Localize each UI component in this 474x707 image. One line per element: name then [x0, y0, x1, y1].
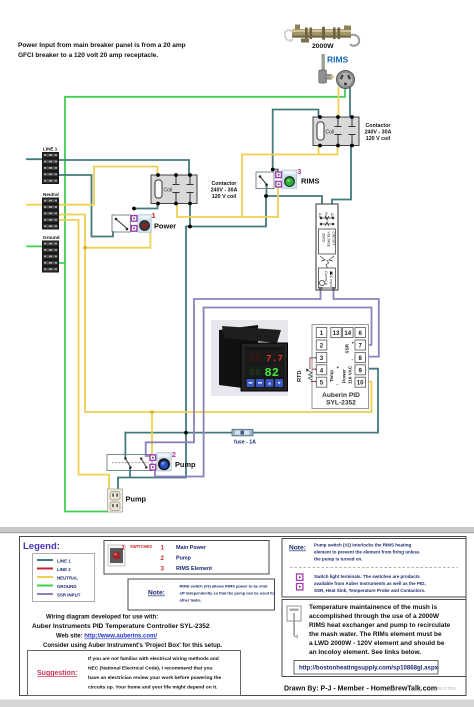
- svg-text:RIMS: RIMS: [301, 177, 320, 186]
- svg-text:9: 9: [359, 367, 363, 374]
- svg-text:SWITCHES: SWITCHES: [130, 544, 152, 549]
- terminal S3 lamp B: [276, 181, 282, 187]
- wire neutral to pump receptacle: [58, 220, 109, 489]
- label contactor K1 value: [211, 181, 238, 200]
- svg-text:SSR INPUT: SSR INPUT: [57, 592, 81, 597]
- pump receptacle: [108, 489, 123, 512]
- SSR U1: [316, 204, 338, 290]
- wire pump switch to pump receptacle: [118, 433, 186, 489]
- svg-text:ZERO: ZERO: [322, 233, 326, 243]
- wire RIMS switch to coil K2: [273, 110, 319, 170]
- svg-text:RIMS Element: RIMS Element: [176, 566, 212, 572]
- svg-text:13: 13: [333, 330, 340, 337]
- suggestion box: [28, 651, 241, 696]
- switch S2 pump DPST: [107, 455, 152, 471]
- svg-text:08.22.2011: 08.22.2011: [437, 687, 456, 691]
- svg-text:A2: A2: [330, 213, 334, 217]
- svg-text:88: 88: [249, 368, 261, 379]
- junction neutral lamp tap: [150, 410, 154, 414]
- svg-text:Ground: Ground: [43, 235, 60, 240]
- legend outer box: [20, 537, 467, 696]
- svg-text:circuits up. Your home and you: circuits up. Your home and your life mig…: [88, 685, 218, 691]
- svg-text:RIMS heat exchanger and pump t: RIMS heat exchanger and pump to recircul…: [309, 622, 451, 629]
- svg-text:Main Power: Main Power: [176, 545, 207, 551]
- svg-text:a LWD 2000W - 120V element and: a LWD 2000W - 120V element and should be: [309, 640, 445, 647]
- svg-text:If you are not familiar with e: If you are not familiar with electrical …: [88, 656, 219, 662]
- svg-text:+: +: [337, 365, 340, 370]
- svg-text:Out: Out: [324, 212, 328, 218]
- svg-text:14: 14: [344, 330, 351, 337]
- svg-text:3: 3: [297, 167, 301, 176]
- wire contactor K2 to SSR A2: [332, 146, 351, 205]
- wire fused line bus to PID terminal 9: [125, 369, 378, 433]
- switch S1 main power: [112, 215, 131, 232]
- wire SSR input minus to pump interlock: [146, 289, 321, 456]
- terminal S3 lamp A: [276, 172, 282, 178]
- terminal S1 lamp A: [131, 216, 137, 222]
- contactor K1: [151, 173, 197, 205]
- svg-text:Note:: Note:: [148, 590, 165, 597]
- wire coil return link K2 to K1: [177, 146, 338, 217]
- contactor K2: [313, 115, 359, 147]
- svg-text:RTD: RTD: [297, 371, 303, 383]
- svg-text:the mash water. The RIMs elem: the mash water. The RIMs element must be: [309, 631, 442, 638]
- svg-text:accomplished through the use o: accomplished through the use of a 2000W: [309, 613, 440, 620]
- svg-text:LINE 2: LINE 2: [57, 567, 71, 572]
- svg-text:240V - 30A: 240V - 30A: [211, 188, 238, 194]
- terminal S1 lamp B: [131, 226, 137, 232]
- svg-text:GFCI breaker to a 120 volt 20: GFCI breaker to a 120 volt 20 amp recept…: [18, 52, 158, 59]
- svg-text:SYL-2352: SYL-2352: [326, 400, 356, 407]
- svg-text:off independently so that the: off independently so that the pump can b…: [180, 591, 276, 596]
- svg-text:+: +: [352, 341, 355, 346]
- legend entry NEUTRAL: [37, 575, 78, 580]
- svg-text:NEUTRAL: NEUTRAL: [57, 575, 78, 580]
- wire neutral to PID terminal 10: [58, 215, 372, 413]
- credits text: [32, 615, 222, 650]
- switches box: [104, 541, 269, 575]
- PID terminal box U2: [312, 325, 369, 409]
- svg-text:RIMS: RIMS: [327, 55, 349, 65]
- wire contactor K1 to fused bus: [186, 204, 190, 433]
- svg-text:8: 8: [359, 355, 363, 362]
- wire receptacle line pin to contactor K2: [349, 88, 351, 117]
- legend entry SSR INPUT: [37, 592, 81, 597]
- svg-text:Suggestion:: Suggestion:: [37, 670, 77, 677]
- svg-text:Auberin PID: Auberin PID: [322, 392, 360, 399]
- junction dots: [132, 168, 275, 435]
- svg-text:1: 1: [161, 545, 165, 552]
- svg-text:120 V coil: 120 V coil: [366, 136, 391, 142]
- svg-text:Consider using Auber Instrumen: Consider using Auber Instrument's 'Proje…: [43, 643, 222, 649]
- wire LINE1 stub left: [27, 158, 42, 160]
- svg-text:120 V coil: 120 V coil: [212, 194, 237, 200]
- note box RIMS switch: [128, 579, 276, 610]
- svg-text:Auber Instruments PID Temperat: Auber Instruments PID Temperature Contro…: [32, 623, 210, 630]
- svg-text:Wiring diagram developed for u: Wiring diagram developed for use with:: [46, 615, 158, 621]
- svg-text:10: 10: [357, 380, 364, 387]
- svg-text:SSR, Heat Sink, Temperature Pr: SSR, Heat Sink, Temperature Probe and Co…: [314, 588, 425, 593]
- svg-text:2000W: 2000W: [312, 43, 334, 50]
- legend entry GROUND: [37, 584, 77, 589]
- wire RIMS switch to SSR input A1: [266, 185, 322, 205]
- svg-text:Legend:: Legend:: [23, 541, 60, 552]
- svg-text:available from Auber Instrumen: available from Auber Instruments as well…: [314, 581, 426, 586]
- svg-text:Pump: Pump: [176, 556, 192, 562]
- svg-text:Contactor: Contactor: [211, 181, 236, 187]
- svg-text:Neutral: Neutral: [43, 192, 59, 197]
- terminal strip Ground: [42, 235, 60, 273]
- wire RIMS switch lamp jog: [273, 170, 278, 174]
- svg-text:VOLTAGE: VOLTAGE: [327, 232, 331, 248]
- svg-text:1: 1: [152, 211, 156, 220]
- svg-text:2: 2: [161, 555, 165, 562]
- svg-text:6: 6: [359, 330, 363, 337]
- svg-text:the pump is turned on.: the pump is turned on.: [314, 557, 363, 562]
- svg-text:Note:: Note:: [289, 545, 306, 552]
- svg-text:Contactor: Contactor: [365, 123, 390, 129]
- svg-text:LINE 1: LINE 1: [57, 558, 71, 563]
- bottom band: [0, 700, 474, 707]
- svg-text:110 VAC: 110 VAC: [348, 365, 353, 384]
- svg-text:82: 82: [265, 366, 279, 380]
- heating element 2000W photo: [285, 25, 359, 46]
- svg-text:NEC (National Electrical Code): NEC (National Electrical Code), I recomm…: [88, 666, 212, 672]
- svg-text:3: 3: [161, 566, 165, 573]
- pushbutton icon RIMS green: [282, 170, 297, 189]
- wire power switch lamp neutral: [85, 229, 150, 248]
- temperature note box: [282, 600, 466, 677]
- svg-text:Temperature maintainence of th: Temperature maintainence of the mush is: [309, 604, 437, 611]
- svg-text:LINE 1: LINE 1: [43, 147, 58, 152]
- svg-text:2: 2: [172, 450, 176, 459]
- svg-text:CIRCUIT: CIRCUIT: [332, 232, 336, 246]
- wire ground stub: [27, 246, 65, 263]
- svg-text:Drawn By: P-J - Member - HomeB: Drawn By: P-J - Member - HomeBrewTalk.co…: [284, 686, 437, 693]
- caption text: [18, 42, 186, 59]
- svg-text:an Incoloy element. See links: an Incoloy element. See links below.: [309, 649, 421, 656]
- legend swatch box: [33, 554, 95, 602]
- wire pump switch lamp drop: [151, 412, 153, 455]
- pushbutton icon pump blue: [157, 453, 172, 472]
- svg-text:http://bostonheatingsupply.com: http://bostonheatingsupply.com/sp10868gl…: [299, 665, 439, 672]
- svg-text:Temp: Temp: [329, 370, 334, 382]
- wire neutral stub left: [27, 204, 42, 206]
- RIMS receptacle round: [337, 71, 355, 89]
- svg-text:other tasks.: other tasks.: [180, 598, 202, 603]
- svg-text:Pump: Pump: [175, 460, 196, 469]
- svg-text:Web site: http://www.auberins: Web site: http://www.auberins.com/: [56, 634, 157, 640]
- RTD sensor: [297, 357, 317, 383]
- svg-text:240V - 30A: 240V - 30A: [365, 130, 392, 136]
- fuse F1: [232, 429, 253, 436]
- terminal S2 lamp A: [150, 455, 156, 461]
- PID controller photo: [211, 320, 288, 396]
- svg-text:Power: Power: [342, 369, 347, 383]
- wire PID terminal 7 to pump interlock: [155, 308, 372, 477]
- wire line bus to pump switch: [124, 433, 126, 458]
- svg-text:7: 7: [359, 343, 363, 350]
- legend entry LINE 2: [37, 567, 71, 572]
- svg-text:fuse - 1A: fuse - 1A: [234, 440, 256, 446]
- wire contactor K1 branch to RIMS switch: [190, 196, 266, 227]
- svg-text:88: 88: [249, 354, 261, 365]
- svg-text:Pump: Pump: [126, 495, 147, 504]
- svg-text:Power Input from main breaker: Power Input from main breaker panel is f…: [18, 42, 186, 49]
- wire SSR input plus to PID terminal 8: [334, 289, 379, 357]
- terminal strip Neutral: [42, 192, 59, 230]
- wire power switch to coil K1: [134, 204, 158, 209]
- separator band: [0, 527, 474, 533]
- wire LINE1 bus to contactor K1: [58, 160, 189, 175]
- svg-text:A1: A1: [318, 213, 322, 217]
- element plug: [319, 54, 334, 83]
- terminal strip LINE 1: [42, 147, 59, 185]
- svg-text:Pump switch (#2) interlocks th: Pump switch (#2) interlocks the RIMS hea…: [314, 543, 412, 548]
- svg-text:7.7: 7.7: [266, 353, 283, 364]
- junction power lamp tap: [83, 246, 87, 250]
- wire neutral to coil K1: [58, 167, 158, 205]
- svg-text:RIMS switch (#3) allows RIMS p: RIMS switch (#3) allows RIMS power to be…: [180, 584, 269, 589]
- pushbutton icon power: [138, 215, 152, 233]
- svg-text:GROUND: GROUND: [57, 584, 77, 589]
- svg-text:SSR: SSR: [345, 343, 350, 353]
- svg-text:have an electrician review you: have an electrician review your work bef…: [88, 675, 221, 681]
- wire ground green bus: [65, 86, 345, 512]
- wire RIMS switch lamp neutral: [242, 188, 278, 218]
- wire receptacle neutral pin to contactor K2: [338, 88, 340, 117]
- label contactor K2 value: [365, 123, 392, 142]
- note box pump interlock: [282, 539, 466, 598]
- svg-text:Power: Power: [154, 222, 176, 231]
- legend entry LINE 1: [37, 558, 71, 563]
- terminal S2 lamp B: [150, 464, 156, 470]
- wire LINE1 to power switch: [58, 175, 113, 237]
- switch S3 RIMS: [256, 172, 274, 189]
- svg-text:Switch light terminals. The sw: Switch light terminals. The switches are…: [314, 574, 420, 579]
- svg-text:element to prevent the element: element to prevent the element from firi…: [314, 550, 420, 555]
